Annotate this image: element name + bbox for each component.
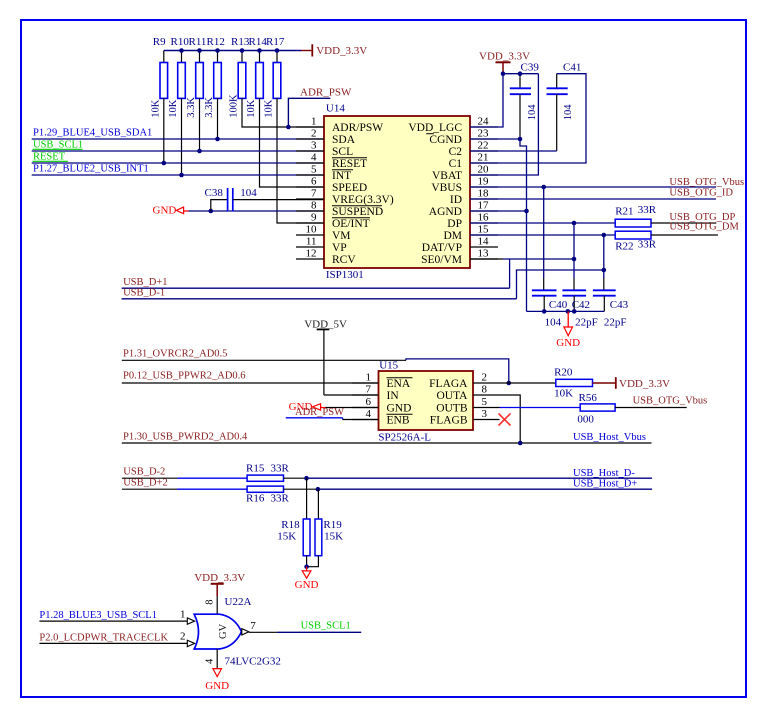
svg-text:18: 18 [478,187,490,199]
resistor R20 10K [554,367,592,387]
wire R16 to USB_Host_D+ [284,488,653,490]
pin 9 OE/INT (U14 left) [296,211,370,230]
svg-text:4: 4 [311,151,317,163]
wire OUTA pin 8 down to USB_Host_Vbus [500,395,521,443]
svg-text:USB_Host_Vbus: USB_Host_Vbus [573,432,646,443]
junction AGND / ground column [524,209,529,214]
op-amp U14 ISP1301 body [324,103,470,281]
svg-text:R22: R22 [615,241,633,253]
svg-text:U15: U15 [379,359,398,371]
svg-text:SCL: SCL [332,146,353,158]
pin 15 DM (U14 right) [443,223,498,242]
svg-text:ISP1301: ISP1301 [326,269,364,281]
svg-text:USB_SCL1: USB_SCL1 [33,139,83,150]
wire R22 to USB_OTG_DM [651,234,718,236]
svg-text:33R: 33R [638,204,657,216]
svg-text:USB_OTG_DM: USB_OTG_DM [669,222,739,233]
resistor R18 15K [281,478,310,567]
svg-text:GND: GND [295,579,319,591]
wire CGND jog down to ground rail [520,139,527,311]
capacitor C39 104 [510,62,540,139]
wire ADR_PSW to pin 1 [288,98,330,127]
wire P0.12_USB_PPWR2_AD0.6 to ENA pin 1 [122,382,379,384]
svg-text:OUTA: OUTA [436,390,468,402]
net label RESET [33,151,68,162]
wire GND to SUSPEND pin 8 [189,210,325,212]
svg-text:8: 8 [311,199,317,211]
svg-text:DAT/VP: DAT/VP [422,242,462,254]
svg-text:33R: 33R [638,238,657,250]
junction GND stick / rail [566,309,571,314]
svg-text:ID: ID [450,194,462,206]
pin 1 ADR/PSW (U14 left) [296,115,383,134]
svg-text:VDD_LGC: VDD_LGC [408,122,462,134]
junction dots on pull-up bus [179,48,184,53]
resistor R56 000 [579,392,616,411]
wire DP pin 16 to R21 [470,222,615,224]
svg-text:R12: R12 [207,36,225,48]
svg-text:USB_SCL1: USB_SCL1 [301,621,351,632]
power port VDD_3.3V (R20) [593,377,671,390]
junction C40 / rail [542,309,547,314]
wire RESET to pin 4 [32,162,324,164]
svg-text:6: 6 [366,396,372,408]
svg-text:104: 104 [240,187,257,199]
svg-text:SPEED: SPEED [332,182,367,194]
svg-text:SE0/VM: SE0/VM [421,254,462,266]
pin 18 ID (U14 right) [450,187,498,206]
pin 8 OUTA (U15 right) [436,384,499,403]
svg-text:R20: R20 [554,367,573,379]
pin 16 DP (U14 right) [447,211,498,230]
svg-text:22pF: 22pF [575,317,598,329]
pin 24 VDD_LGC (U14 right) [408,115,498,134]
pin 1 ENA (U15 left) [352,372,413,391]
svg-text:USB_D-2: USB_D-2 [123,466,165,477]
pin 21 C1 (U14 right) [449,151,498,170]
wire R17 bottom to OE/INT pin 9 [277,98,324,223]
pin 5 INT (U14 left) [296,163,353,182]
svg-text:10: 10 [306,223,318,235]
svg-text:USB_Host_D+: USB_Host_D+ [573,478,637,489]
ground symbol GND (gate) [205,669,229,692]
wire FLAGA to R20 [500,382,556,384]
net label USB_SCL1 (left) [33,139,84,150]
svg-text:104: 104 [527,104,538,121]
svg-text:11: 11 [306,235,317,247]
svg-text:USB_D+1: USB_D+1 [123,277,167,288]
svg-text:R19: R19 [323,519,342,531]
svg-text:100K: 100K [229,94,240,118]
svg-text:3.3K: 3.3K [204,97,215,118]
pin 1 arrow (gate input) [187,618,194,624]
svg-text:GND: GND [387,403,412,415]
svg-text:OE/INT: OE/INT [332,218,370,230]
svg-text:104: 104 [545,317,562,329]
svg-text:USB_D-1: USB_D-1 [123,288,165,299]
resistor R19 15K [307,489,343,567]
pin 6 SPEED (U14 left) [296,175,367,194]
resistor R10 10K pull-up [168,36,189,118]
junction R9 / RESET [162,161,167,166]
svg-text:VDD_3.3V: VDD_3.3V [619,378,670,390]
wire top pull-up bus to VDD_3.3V [164,50,301,52]
svg-text:RESET: RESET [33,151,66,162]
svg-text:ADR_PSW: ADR_PSW [295,407,344,418]
svg-text:USB_D+2: USB_D+2 [123,477,167,488]
svg-text:2: 2 [482,372,488,384]
wire VDD rail to VBAT branch [503,73,538,75]
wire C40 branch down [543,187,545,278]
svg-text:RESET: RESET [332,158,367,170]
wire R11 bottom to USB_SCL1 row [199,98,201,151]
ground symbol GND (U15 pin 6) [289,401,326,413]
svg-text:P1.29_BLUE4_USB_SDA1: P1.29_BLUE4_USB_SDA1 [33,127,152,138]
pin 7 arrow (gate output) [242,629,249,635]
svg-text:VDD_3.3V: VDD_3.3V [194,572,245,584]
pin 23 CGND (U14 right) [426,127,498,146]
svg-text:3: 3 [482,408,488,420]
svg-text:SUSPEND: SUSPEND [332,206,383,218]
pin 20 VBAT (U14 right) [432,163,498,182]
junction R12 / P1.29_BLUE4_USB_SDA1 [215,137,220,142]
pin 14 DAT/VP (U14 right) [422,235,498,254]
junction R19 / D+ row [316,487,321,492]
pin 10 VM (U14 left) [296,223,351,242]
svg-text:5: 5 [482,396,488,408]
wire USB_D+1 to SE0/VM pin 13 [122,259,574,288]
svg-text:R15: R15 [246,462,265,474]
svg-text:USB_OTG_Vbus: USB_OTG_Vbus [669,177,744,188]
wire P1.29_BLUE4_USB_SDA1 to SDA pin 2 [32,138,324,140]
junction CGND / C39 bottom [518,137,523,142]
junction VBUS / C40 branch [541,185,546,190]
svg-text:VDD_3.3V: VDD_3.3V [316,45,367,57]
svg-text:1: 1 [366,372,372,384]
svg-text:10K: 10K [264,99,275,118]
power port VDD_5V [304,318,347,395]
junction USB_D-1 link / DM column [602,268,607,273]
junction R10 / P1.27_BLUE2_USB_INT1 [179,173,184,178]
junction ADR_PSW / pin1 / R13 [286,125,291,130]
wire VBAT pin 20 up to VDD rail [470,74,538,175]
junction OUTA / USB_Host_Vbus [518,441,523,446]
pin 7 IN (U15 left) [352,384,399,403]
svg-text:FLAGA: FLAGA [429,378,468,390]
junction SE0 link / DP column [572,257,577,262]
junction DP / C42 branch [572,221,577,226]
svg-text:VP: VP [332,242,347,254]
wire ID pin 18 to USB_OTG_ID [470,198,716,200]
svg-text:8: 8 [205,600,216,605]
svg-text:P1.27_BLUE2_USB_INT1: P1.27_BLUE2_USB_INT1 [33,163,149,174]
svg-text:6: 6 [311,175,317,187]
pin 8 SUSPEND (U14 left) [296,199,383,218]
wire VBUS pin 19 to USB_OTG_Vbus [470,186,716,188]
wire OUTB pin 5 to R56 [500,407,581,409]
ground symbol GND (C38 net) [153,205,189,217]
pin 2 FLAGA (U15 right) [429,372,499,391]
svg-text:13: 13 [478,247,490,259]
svg-text:DM: DM [443,230,462,242]
junction FLAGA / R20 [507,381,512,386]
power port VDD_3.3V (top right) [479,50,530,73]
wire P1.30_USB_PWRD2_AD0.4 / USB_Host_Vbus [122,442,652,444]
op-amp U15 SP2526A-L body [378,359,473,443]
pin 3 SCL (U14 left) [296,139,353,158]
svg-text:2: 2 [311,127,317,139]
resistor R17 10K pull-up [264,36,285,118]
pin 4 ENB (U15 left) [352,408,413,427]
svg-text:1: 1 [311,115,317,127]
capacitor C43 22pF [593,290,629,311]
capacitor C40 104 [532,290,568,311]
resistor R13 100K pull-up [229,36,250,118]
wire CGND pin 23 to C39 [470,138,520,140]
svg-text:22pF: 22pF [604,317,627,329]
svg-text:000: 000 [577,414,594,426]
svg-text:OUTB: OUTB [436,403,468,415]
ground symbol GND (R18/R19) [295,567,319,591]
wire C38 to VREG(3.3V) pin 7 [233,199,324,201]
svg-text:U14: U14 [326,103,345,115]
wire ground rail under caps [527,310,605,312]
resistor R11 3.3K pull-up [186,36,206,118]
pin 19 VBUS (U14 right) [431,175,498,194]
svg-text:GND: GND [153,205,177,217]
svg-text:SDA: SDA [332,134,356,146]
svg-text:15: 15 [478,223,490,235]
svg-text:R13: R13 [231,36,250,48]
svg-text:C40: C40 [549,299,568,311]
svg-text:P1.31_OVRCR2_AD0.5: P1.31_OVRCR2_AD0.5 [123,349,227,360]
wire C41 top to C1 pin 21 [470,74,586,163]
pin 4 RESET (U14 left) [296,151,367,170]
wire USB_D-1 to DM column [122,270,604,299]
svg-text:P2.0_LCDPWR_TRACECLK: P2.0_LCDPWR_TRACECLK [39,633,168,644]
svg-text:R14: R14 [249,36,268,48]
junction R11 / USB_SCL1 [197,149,202,154]
junction R18/R19 ground [304,564,309,569]
svg-text:C43: C43 [610,299,629,311]
wire R14 bottom to SPEED pin 6 [260,98,325,187]
svg-text:GND: GND [205,680,229,692]
wire C41 bottom to C2 pin 22 [470,150,557,152]
svg-text:ENA: ENA [387,378,411,390]
svg-text:7: 7 [366,384,372,396]
resistor R9 10K pull-up [151,36,168,118]
svg-text:23: 23 [478,127,490,139]
wire P1.31_OVRCR2_AD0.5 to FLAGA [122,359,509,383]
wire R9 bottom to RESET row [163,98,165,163]
junction C39 top / VDD rail [518,71,523,76]
svg-text:2: 2 [180,631,186,643]
wire USB_D+2 to R16 [122,488,247,490]
svg-text:R16: R16 [246,493,265,505]
svg-text:C41: C41 [563,62,581,74]
svg-text:17: 17 [478,199,490,211]
pin 2 arrow (gate input) [187,640,194,646]
svg-text:ADR_PSW: ADR_PSW [300,86,352,98]
resistor R12 3.3K pull-up [204,36,225,118]
pin 2 SDA (U14 left) [296,127,356,146]
svg-text:R18: R18 [281,519,300,531]
svg-text:VDD_3.3V: VDD_3.3V [479,50,530,62]
svg-text:INT: INT [332,170,351,182]
wire gate output to USB_SCL1 [249,631,361,633]
svg-text:GV: GV [218,623,229,639]
svg-text:4: 4 [205,658,216,664]
wire VDD to gate pin 8 [216,596,218,614]
svg-text:5: 5 [311,163,317,175]
svg-text:3.3K: 3.3K [186,97,197,118]
pin 6 GND (U15 left) [352,396,411,415]
junction C38 / GND wire [209,209,214,214]
wire C43 branch down [603,235,605,278]
resistor R22 33R [615,231,651,253]
wire VDD_5V to IN pin 7 (U15) [324,394,379,396]
svg-text:ADR/PSW: ADR/PSW [332,122,383,134]
svg-text:CGND: CGND [429,134,462,146]
svg-text:R11: R11 [189,36,207,48]
svg-text:104: 104 [563,104,574,121]
svg-text:19: 19 [478,175,490,187]
wire R15 to USB_Host_D- [284,477,653,479]
svg-text:R21: R21 [615,206,633,218]
svg-text:VBAT: VBAT [432,170,462,182]
svg-text:IN: IN [387,390,400,402]
svg-text:P1.28_BLUE3_USB_SCL1: P1.28_BLUE3_USB_SCL1 [39,610,157,621]
junction DM / C43 branch [602,233,607,238]
wire R56 to USB_OTG_Vbus [615,407,687,409]
svg-text:VM: VM [332,230,351,242]
svg-text:VREG(3.3V): VREG(3.3V) [332,194,394,206]
svg-text:USB_OTG_Vbus: USB_OTG_Vbus [633,396,708,407]
svg-text:15K: 15K [324,531,343,543]
pin 7 VREG(3.3V) (U14 left) [296,187,394,206]
no-connect X on FLAGB pin 3 [499,414,511,426]
svg-text:R9: R9 [153,36,166,48]
wire DM pin 15 to R22 [470,234,615,236]
wire GND to U15 pin 6 [326,407,379,409]
wire input 2 to gate [39,642,187,644]
svg-text:U22A: U22A [225,596,252,608]
svg-text:14: 14 [478,235,490,247]
capacitor C41 104 [547,62,582,151]
svg-text:RCV: RCV [332,254,356,266]
wire C42 branch down [573,223,575,278]
svg-text:C38: C38 [205,187,224,199]
svg-text:R56: R56 [579,392,598,404]
svg-text:24: 24 [478,115,490,127]
wire VDD down to VDD_LGC pin 24 [470,74,503,127]
power port VDD_3.3V (gate) [194,572,245,597]
svg-text:1: 1 [180,608,186,620]
wire gate pin 4 to GND [216,649,218,669]
junction R18 / D- row [304,476,309,481]
svg-text:8: 8 [482,384,488,396]
svg-text:15K: 15K [277,531,296,543]
svg-text:DP: DP [447,218,462,230]
svg-text:R17: R17 [266,36,285,48]
junction C42 / rail [572,309,577,314]
svg-text:74LVC2G32: 74LVC2G32 [225,656,281,668]
svg-text:20: 20 [478,163,490,175]
svg-text:C2: C2 [449,146,463,158]
svg-text:10K: 10K [151,99,162,118]
wire R21 to USB_OTG_DP [651,222,716,224]
wire ADR_PSW to ENB pin 4 [286,418,379,420]
wire R10 bottom to USB_INT1 row [181,98,183,175]
wire input 1 to gate [39,620,187,622]
resistor R16 33R [246,486,290,505]
svg-text:4: 4 [366,408,372,420]
svg-text:VBUS: VBUS [431,182,462,194]
svg-text:12: 12 [306,247,317,259]
svg-text:9: 9 [311,211,317,223]
resistor R21 33R [615,206,651,227]
resistor R14 10K pull-up [246,36,267,118]
wire USB_SCL1 to SCL pin 3 [32,150,324,152]
svg-text:FLAGB: FLAGB [430,415,468,427]
or-gate U22A 74LVC2G32 [194,596,281,667]
svg-text:10K: 10K [246,99,257,118]
wire R13 bottom to ADR/PSW pin 1 [242,98,324,127]
svg-text:R10: R10 [171,36,190,48]
ground symbol GND (cap bank) [556,311,580,348]
svg-text:7: 7 [250,620,256,632]
svg-text:10K: 10K [168,99,179,118]
wire R12 bottom to USB_SDA1 row [217,98,219,139]
pin 13 SE0/VM (U14 right) [421,247,498,266]
svg-text:ENB: ENB [387,415,410,427]
wire AGND pin 17 to ground column [470,210,527,212]
svg-text:P1.30_USB_PWRD2_AD0.4: P1.30_USB_PWRD2_AD0.4 [123,431,248,442]
capacitor C42 22pF [562,290,590,311]
svg-text:10K: 10K [554,388,573,400]
svg-text:33R: 33R [271,462,290,474]
pin 3 FLAGB (U15 right) [430,408,500,427]
pin 5 OUTB (U15 right) [436,396,499,415]
pin 12 RCV (U14 left) [296,247,356,266]
svg-text:GND: GND [556,337,580,349]
svg-text:3: 3 [311,139,317,151]
svg-text:C1: C1 [449,158,463,170]
wire P1.27_BLUE2_USB_INT1 to INT pin 5 [32,174,324,176]
svg-text:P0.12_USB_PPWR2_AD0.6: P0.12_USB_PPWR2_AD0.6 [123,370,246,381]
svg-text:SP2526A-L: SP2526A-L [378,431,431,443]
junction VDD rail [501,71,506,76]
svg-text:33R: 33R [271,493,290,505]
svg-text:22: 22 [478,139,489,151]
svg-text:AGND: AGND [429,206,462,218]
resistor R15 33R [246,462,290,481]
pin 11 VP (U14 left) [296,235,347,254]
svg-text:USB_OTG_ID: USB_OTG_ID [669,188,733,199]
pin 22 C2 (U14 right) [449,139,498,158]
svg-text:16: 16 [478,211,490,223]
svg-text:21: 21 [478,151,489,163]
capacitor C38 104 [205,187,233,211]
wire USB_D-2 to R15 [122,477,247,479]
svg-text:C39: C39 [521,62,540,74]
svg-text:7: 7 [311,187,317,199]
power port VDD_3.3V (top) [301,44,367,57]
pin 17 AGND (U14 right) [429,199,498,218]
